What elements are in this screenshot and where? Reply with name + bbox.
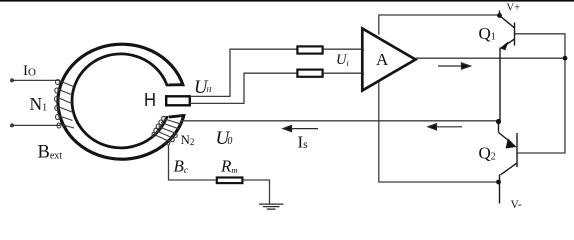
svg-text:A: A (376, 50, 389, 69)
svg-text:V-: V- (511, 199, 522, 211)
svg-text:H: H (144, 90, 156, 110)
svg-text:V+: V+ (507, 3, 521, 14)
